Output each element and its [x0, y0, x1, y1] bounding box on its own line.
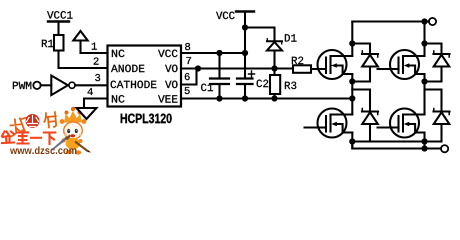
pin number 8 [185, 43, 190, 50]
power rail VCC1 label [47, 11, 72, 19]
op-amp IC U1 HCPL3120 box [108, 46, 182, 107]
pin number 2 [94, 58, 99, 65]
transistor Q1 MOSFET top-left [318, 50, 353, 79]
wire PWM to inverter [41, 84, 52, 86]
wire right column bottom source [423, 133, 425, 149]
wire inverter to pin 3 [75, 84, 107, 86]
pin number 4 [88, 88, 93, 95]
power symbol VCC [216, 12, 235, 20]
wire gate Q2 [378, 68, 399, 70]
PWM label [13, 82, 31, 89]
node C2/VCC top [242, 50, 248, 56]
watermark text www.dzsc.com [10, 146, 76, 154]
arrow symbol at pin 1 [73, 31, 87, 41]
transistor Q4 MOSFET bottom-right [390, 109, 425, 138]
pin number 5 [185, 87, 190, 94]
terminal top output [429, 18, 436, 25]
wire right column source to bottom drain [423, 74, 425, 115]
resistor R3 [273, 69, 275, 76]
wire left column source to bottom drain [351, 74, 353, 115]
node bottom left junction [349, 138, 355, 144]
node left diode anode [349, 78, 355, 84]
wire R2 to gate Q1 [311, 68, 326, 70]
wire top drain rail [352, 20, 428, 22]
node C2 bottom [242, 95, 248, 101]
wire arrow to pin 1 [81, 52, 108, 54]
label HCPL3120 [121, 114, 172, 124]
node D1/R3/VO junction [271, 65, 277, 71]
node C1 bottom [216, 95, 222, 101]
wire pins 6-7 link [195, 69, 197, 85]
resistor R2 [293, 65, 311, 73]
diode D5 zener bottom-right [425, 90, 450, 142]
wire VCC to D1 [245, 28, 275, 42]
wire VO output to R2 [181, 67, 293, 69]
power symbol VCC1 [48, 20, 69, 22]
wire R1 to pin 2 [59, 51, 108, 69]
transistor Q2 MOSFET top-right [390, 50, 425, 79]
capacitor C2 polarized [244, 53, 246, 99]
wire right column drain [423, 22, 425, 57]
node R3 bottom [271, 95, 277, 101]
pin number 6 [185, 73, 190, 80]
watermark text 维库一下 [2, 131, 55, 145]
watermark mascot [51, 107, 91, 155]
diode D2 zener top-left [352, 44, 378, 82]
resistor R1 [54, 35, 64, 51]
wire bottom mid connector [352, 140, 441, 142]
diode D3 zener top-right [425, 44, 450, 82]
wire pin 4 to ground [84, 99, 108, 109]
wire left column bottom source [351, 133, 353, 149]
PWM input terminal [33, 82, 40, 89]
node right diode branch top [421, 40, 427, 46]
node pins 6-7 junction [195, 65, 201, 71]
diode D4 zener bottom-left [352, 90, 378, 142]
wire pin 8 VCC rail [181, 52, 245, 54]
wire pin 5 VEE rail [181, 97, 352, 99]
diode D1 zener [267, 40, 282, 42]
wire bottom rail [352, 142, 441, 149]
node top rail right [421, 18, 427, 24]
pin number 7 [186, 57, 191, 64]
pin number 3 [95, 74, 100, 81]
inverter U2 [51, 76, 68, 96]
node bottom right on rail [421, 145, 427, 151]
ground arrow [77, 108, 97, 119]
node VCC branch [242, 24, 248, 30]
node bottom right junction [421, 138, 427, 144]
node C1 top [216, 50, 222, 56]
node right diode anode [421, 78, 427, 84]
wire pin 6 stub [181, 83, 197, 85]
capacitor C1 [218, 53, 220, 99]
wire gate Q4 [378, 126, 399, 128]
transistor Q3 MOSFET bottom-left [318, 109, 353, 138]
node VEE rail to bridge [349, 95, 355, 101]
pin number 1 [92, 43, 97, 50]
wire left column drain [351, 22, 353, 57]
wire gate Q3 [305, 126, 327, 128]
watermark logo 找芯片 stylized text [9, 112, 57, 136]
red seal circle of logo [26, 114, 40, 128]
terminal bottom output [441, 145, 448, 152]
node left diode branch top [349, 40, 355, 46]
